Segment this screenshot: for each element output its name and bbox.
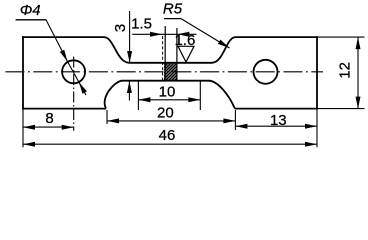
svg-text:10: 10 xyxy=(159,83,176,100)
dimension 10 left arrowhead xyxy=(138,97,150,102)
surface finish triangle xyxy=(178,46,194,62)
dimension 8 left arrowhead xyxy=(23,125,35,130)
dimension 12 up arrowhead xyxy=(356,37,361,49)
centerline vertical through left hole xyxy=(73,57,75,131)
dimension 10 line xyxy=(138,99,200,101)
R5 leader arrowhead xyxy=(218,40,230,48)
svg-text:Φ4: Φ4 xyxy=(20,2,41,19)
dimension 46 line xyxy=(23,143,317,145)
svg-text:R5: R5 xyxy=(163,0,183,17)
phi4 diameter line through hole xyxy=(68,62,87,96)
phi4 leader line xyxy=(46,20,68,62)
phi4 underline xyxy=(16,19,47,21)
phi4 leader arrowhead xyxy=(60,50,68,62)
section strip right line xyxy=(176,28,178,81)
extension stub 20-dim left xyxy=(106,110,108,124)
dimension 13 right arrowhead xyxy=(305,124,317,129)
bottom-right fillet xyxy=(209,81,235,109)
dimension 46 right arrowhead xyxy=(305,142,317,147)
dimension 3 up arrowhead xyxy=(127,81,132,93)
dimension 20 left arrowhead xyxy=(107,118,119,123)
top-right fillet R5 xyxy=(212,37,236,63)
wire: top edge right grip xyxy=(236,36,318,38)
dimension 1.5 line xyxy=(132,33,196,35)
dimension 8 right arrowhead xyxy=(62,125,74,130)
svg-text:20: 20 xyxy=(157,105,174,122)
svg-text:1.5: 1.5 xyxy=(131,15,152,32)
wire: bottom edge left grip xyxy=(22,108,106,110)
svg-text:12: 12 xyxy=(337,62,354,79)
wire: right edge of specimen xyxy=(316,36,318,109)
extension line 10-dim left xyxy=(137,82,139,111)
R5 leader line xyxy=(181,19,230,48)
svg-text:8: 8 xyxy=(45,110,53,127)
dimension 1.5 right-pointing arrowhead xyxy=(150,32,162,37)
dimension 20 line xyxy=(107,120,235,122)
wire: narrow section top edge xyxy=(130,62,212,64)
bottom-left fillet xyxy=(105,81,123,109)
extension line 12-dim bottom xyxy=(318,108,365,110)
dimension 3 lower line xyxy=(128,81,130,101)
dimension 1.5 left-pointing arrowhead xyxy=(177,32,189,37)
extension line right edge below part xyxy=(316,110,318,148)
section strip left dashed line xyxy=(162,36,164,80)
wire: bottom edge right grip xyxy=(235,108,318,110)
dimension 13 left arrowhead xyxy=(235,124,247,129)
wire: top edge left grip xyxy=(22,36,104,38)
R5 underline xyxy=(164,18,181,20)
centerline horizontal main axis xyxy=(6,71,324,73)
dimension 12 down arrowhead xyxy=(356,97,361,109)
dimension 12 line xyxy=(357,37,359,109)
dimension 20 right arrowhead xyxy=(223,118,235,123)
wire: narrow section bottom edge xyxy=(123,80,210,82)
dimension 3 down arrowhead xyxy=(127,51,132,63)
section strip left line xyxy=(164,26,166,81)
svg-text:3: 3 xyxy=(112,24,129,32)
left hole (phi 4) xyxy=(62,60,85,83)
svg-text:46: 46 xyxy=(159,127,176,144)
dimension 46 left arrowhead xyxy=(23,142,35,147)
extension line left edge below part xyxy=(22,110,24,148)
dimension 3 upper line xyxy=(129,11,131,63)
extension stub 20-dim right / 13-dim left xyxy=(234,110,236,130)
top-left fillet xyxy=(104,37,130,63)
extension line 10-dim right xyxy=(199,82,201,111)
wire: left edge of specimen xyxy=(22,36,24,109)
dimension 13 line xyxy=(235,125,317,127)
dimension 10 right arrowhead xyxy=(188,97,200,102)
extension line 12-dim top xyxy=(318,36,365,38)
dimension 8 line xyxy=(23,126,74,128)
right hole xyxy=(254,60,278,84)
svg-text:13: 13 xyxy=(270,112,287,129)
phi4 lower arrowhead xyxy=(79,82,87,94)
